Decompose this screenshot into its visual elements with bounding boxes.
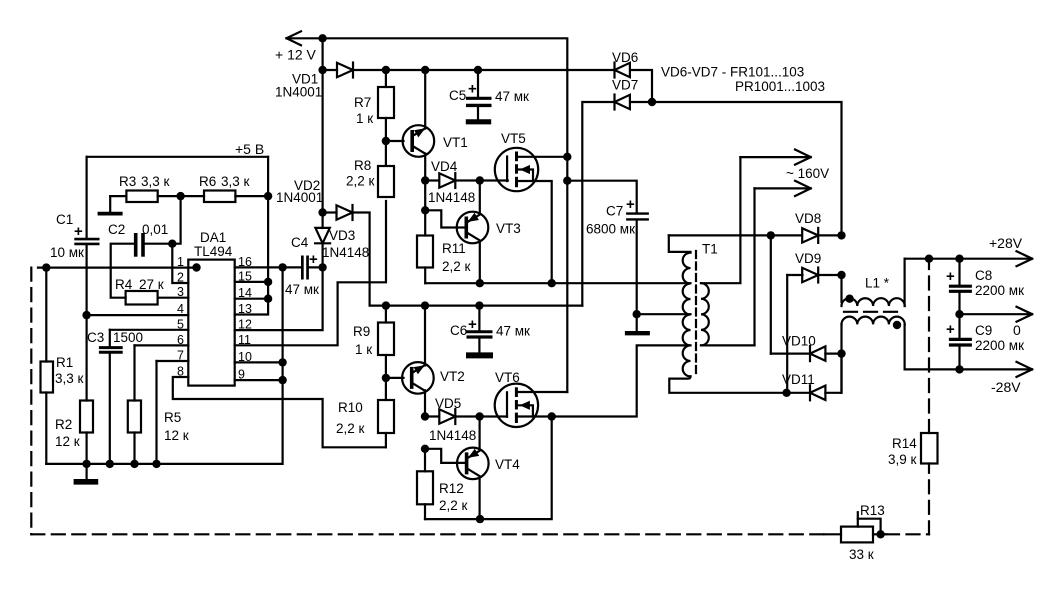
svg-text:PR1001...1003: PR1001...1003 <box>735 79 825 94</box>
svg-text:1: 1 <box>177 255 184 269</box>
svg-text:R14: R14 <box>892 436 917 451</box>
svg-text:+: + <box>946 268 955 285</box>
svg-text:11: 11 <box>238 333 251 347</box>
svg-text:3,3 к: 3,3 к <box>221 174 250 189</box>
svg-text:C2: C2 <box>108 222 125 237</box>
svg-text:12 к: 12 к <box>164 428 189 443</box>
svg-text:12: 12 <box>238 318 252 332</box>
svg-text:VT6: VT6 <box>495 370 520 385</box>
svg-text:10: 10 <box>238 350 252 364</box>
svg-text:7: 7 <box>177 349 184 363</box>
svg-text:1 к: 1 к <box>355 342 372 357</box>
svg-text:2200 мк: 2200 мк <box>975 338 1024 353</box>
svg-text:R1: R1 <box>56 355 73 370</box>
svg-text:+: + <box>468 81 477 98</box>
svg-text:1N4148: 1N4148 <box>428 190 475 205</box>
svg-text:VD4: VD4 <box>431 159 458 174</box>
svg-text:12 к: 12 к <box>55 434 80 449</box>
svg-text:DA1: DA1 <box>200 230 226 245</box>
svg-text:3: 3 <box>177 285 184 299</box>
svg-text:2: 2 <box>177 271 184 285</box>
svg-text:C8: C8 <box>975 268 992 283</box>
svg-text:VD5: VD5 <box>435 396 461 411</box>
svg-text:VD9: VD9 <box>795 251 821 266</box>
svg-text:R12: R12 <box>439 481 464 496</box>
svg-text:27 к: 27 к <box>139 277 164 292</box>
svg-text:+28V: +28V <box>989 235 1023 251</box>
svg-text:+ 12 V: + 12 V <box>275 47 317 63</box>
svg-text:R4: R4 <box>115 277 133 292</box>
svg-text:1500: 1500 <box>113 330 143 345</box>
svg-text:47 мк: 47 мк <box>496 324 530 339</box>
svg-text:15: 15 <box>238 269 252 283</box>
svg-text:~ 160V: ~ 160V <box>786 166 829 181</box>
svg-text:R2: R2 <box>55 417 72 432</box>
svg-text:+: + <box>74 223 83 240</box>
svg-text:VD8: VD8 <box>795 211 821 226</box>
svg-text:TL494: TL494 <box>194 244 233 259</box>
svg-text:47 мк: 47 мк <box>285 282 319 297</box>
svg-text:4: 4 <box>177 302 184 316</box>
svg-text:R8: R8 <box>354 158 371 173</box>
svg-text:3,3 к: 3,3 к <box>55 371 84 386</box>
svg-text:VD3: VD3 <box>329 228 355 243</box>
svg-text:VT3: VT3 <box>496 221 521 236</box>
svg-text:+: + <box>626 196 635 213</box>
svg-text:10 мк: 10 мк <box>50 245 84 260</box>
svg-text:C1: C1 <box>56 212 73 227</box>
svg-text:C9: C9 <box>975 323 992 338</box>
svg-text:VD7: VD7 <box>612 78 638 93</box>
svg-text:13: 13 <box>238 302 252 316</box>
svg-text:-28V: -28V <box>991 379 1021 395</box>
svg-text:1N4001: 1N4001 <box>275 85 322 100</box>
svg-text:2,2 к: 2,2 к <box>439 498 468 513</box>
svg-text:VD6: VD6 <box>612 50 638 65</box>
svg-text:+: + <box>309 251 318 268</box>
svg-text:VT4: VT4 <box>495 457 520 472</box>
svg-text:VD10: VD10 <box>782 334 816 349</box>
svg-text:R7: R7 <box>354 95 371 110</box>
svg-text:0,01: 0,01 <box>142 222 168 237</box>
svg-text:R10: R10 <box>338 400 363 415</box>
svg-text:R11: R11 <box>442 241 466 256</box>
svg-text:14: 14 <box>238 286 252 300</box>
svg-text:R3: R3 <box>119 174 136 189</box>
svg-text:R9: R9 <box>353 324 370 339</box>
svg-text:3,9 к: 3,9 к <box>888 452 917 467</box>
svg-text:2200 мк: 2200 мк <box>975 283 1024 298</box>
svg-text:R5: R5 <box>164 410 181 425</box>
svg-text:C3: C3 <box>87 330 104 345</box>
svg-text:0: 0 <box>1013 322 1021 338</box>
svg-text:16: 16 <box>238 255 252 269</box>
svg-text:47 мк: 47 мк <box>495 89 529 104</box>
svg-text:C7: C7 <box>606 204 623 219</box>
svg-text:8: 8 <box>177 365 184 379</box>
svg-text:C4: C4 <box>291 235 309 250</box>
svg-text:VT5: VT5 <box>501 131 526 146</box>
svg-text:R13: R13 <box>860 503 885 518</box>
svg-text:VT2: VT2 <box>440 369 465 384</box>
svg-text:+: + <box>946 321 955 338</box>
svg-text:+: + <box>468 316 477 333</box>
svg-text:C6: C6 <box>450 323 467 338</box>
svg-text:2,2 к: 2,2 к <box>346 174 375 189</box>
svg-text:2,2 к: 2,2 к <box>442 259 471 274</box>
svg-text:C5: C5 <box>449 88 466 103</box>
svg-text:3,3 к: 3,3 к <box>141 174 170 189</box>
svg-text:6800 мк: 6800 мк <box>586 222 635 237</box>
svg-text:33 к: 33 к <box>849 547 874 562</box>
svg-text:1N4148: 1N4148 <box>429 428 476 443</box>
svg-text:T1: T1 <box>702 242 718 257</box>
svg-text:9: 9 <box>238 368 245 382</box>
svg-text:VD6-VD7 - FR101...103: VD6-VD7 - FR101...103 <box>661 65 804 80</box>
svg-text:R6: R6 <box>199 174 216 189</box>
svg-text:VD11: VD11 <box>782 372 815 387</box>
svg-text:1N4148: 1N4148 <box>322 245 369 260</box>
svg-text:6: 6 <box>177 333 184 347</box>
svg-text:1N4001: 1N4001 <box>276 190 323 205</box>
svg-text:5: 5 <box>177 317 184 331</box>
svg-text:VT1: VT1 <box>443 135 468 150</box>
svg-text:1 к: 1 к <box>356 111 373 126</box>
svg-text:+5 В: +5 В <box>235 141 264 157</box>
svg-text:2,2 к: 2,2 к <box>336 421 365 436</box>
svg-text:L1 *: L1 * <box>865 276 890 291</box>
